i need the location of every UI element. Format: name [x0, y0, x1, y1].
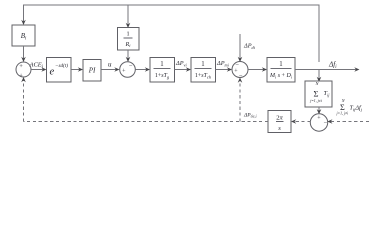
svg-text:−: −: [239, 73, 243, 80]
svg-text:2π: 2π: [276, 115, 283, 122]
wire feedback drop to tie-line sum block: [318, 70, 320, 82]
svg-text:1: 1: [201, 61, 204, 68]
arrowhead into B block top: [21, 20, 26, 25]
wire PI to summer S2: [101, 69, 118, 71]
svg-text:+: +: [19, 63, 23, 70]
summer S4 (tie-line power junction): [310, 114, 327, 131]
node label df_i: [328, 61, 337, 70]
arrowhead into summer S3 left: [227, 67, 232, 72]
arrowhead into summer S2 top: [126, 57, 131, 62]
block delay e^-sd(t): [47, 58, 72, 83]
summer S3 (accelerating power junction): [232, 62, 248, 80]
svg-text:PI: PI: [88, 67, 96, 75]
wire governor to turbine: [175, 69, 190, 71]
label sum T_ij df_j: [336, 98, 363, 117]
block PI controller: [83, 60, 101, 82]
block generator 1/(M_i s + D_i): [267, 58, 295, 83]
arrowhead into turbine block: [186, 67, 191, 72]
arrowhead into delay block: [41, 67, 46, 72]
arrowhead into PI block: [78, 67, 83, 72]
svg-text:Mi s + Di: Mi s + Di: [269, 73, 293, 79]
wire S2 to governor block: [135, 69, 148, 71]
svg-text:−: −: [129, 63, 133, 70]
node label dP_di: [243, 43, 256, 50]
node label dP_tie,i: [243, 113, 257, 120]
wire dashed from right edge into S4: [329, 121, 369, 123]
svg-text:−sd(t): −sd(t): [55, 62, 68, 69]
arrowhead into summer S3 top: [238, 57, 243, 62]
arrowhead into summer S3 bottom: [238, 78, 243, 83]
svg-text:u: u: [108, 61, 112, 69]
wire dashed tie-line power back run: [24, 121, 269, 123]
wire delay block to PI block: [71, 69, 82, 71]
wire dashed S4 to 2pi/s block: [294, 121, 311, 123]
wire S1 to delay block: [31, 69, 45, 71]
svg-text:−: −: [235, 62, 239, 69]
svg-text:1: 1: [160, 61, 163, 68]
wire sum block to summer S4: [318, 107, 320, 113]
wire B block to summer S1: [23, 46, 25, 61]
block turbine 1/(1+sT_ch): [191, 58, 216, 83]
block B_i (frequency bias): [12, 25, 35, 46]
arrowhead into summer S4 right: [327, 119, 332, 124]
arrowhead into summer S4 top: [317, 109, 322, 114]
block tie-line integrator 2pi/s: [268, 111, 291, 133]
wire load disturbance drop: [239, 34, 241, 61]
svg-text:1+sTch: 1+sTch: [195, 73, 212, 79]
svg-text:s: s: [278, 125, 281, 132]
wire droop tap from rail down to 1/R block: [127, 5, 129, 27]
wire dashed tie-line up to S1: [23, 79, 25, 122]
wire generator output to arrow: [295, 69, 358, 71]
svg-text:N: N: [341, 98, 345, 103]
arrowhead into summer S2 left: [114, 67, 119, 72]
wire 1/R block to summer S2: [127, 50, 129, 61]
arrowhead into tie-line sum block top: [317, 77, 322, 82]
svg-text:1+sTg: 1+sTg: [155, 73, 170, 79]
summer S1 (ACE summing junction): [16, 62, 31, 80]
wire top feedback rail: [24, 5, 320, 62]
wire dashed tie-line up to S3: [239, 79, 241, 122]
block tie-line sum T_ij: [305, 81, 332, 107]
summer S2 (governor input junction): [120, 62, 136, 78]
arrowhead into summer S1 bottom: [21, 77, 26, 82]
arrowhead into generator block: [262, 67, 267, 72]
wire S3 to generator block: [248, 69, 266, 71]
node label u: [108, 61, 112, 69]
arrowhead into 2pi/s block right: [291, 119, 296, 124]
arrowhead into summer S1 top: [21, 57, 26, 62]
block governor 1/(1+sT_g): [150, 58, 175, 83]
svg-text:+: +: [19, 73, 23, 80]
node label dP_vi: [175, 60, 187, 67]
svg-text:1: 1: [279, 61, 282, 68]
arrowhead into governor block: [145, 67, 150, 72]
arrowhead into 1/R block top: [126, 23, 131, 28]
svg-text:e: e: [50, 67, 55, 78]
wire turbine to summer S3: [216, 69, 231, 71]
svg-text:Σ: Σ: [313, 89, 318, 99]
arrowhead output df_i: [354, 67, 359, 72]
node label ACE_i: [29, 62, 44, 70]
svg-text:1: 1: [126, 31, 129, 38]
node label dP_mi: [216, 60, 230, 67]
block 1/R_i (droop): [118, 28, 140, 51]
svg-text:−: −: [323, 120, 327, 127]
